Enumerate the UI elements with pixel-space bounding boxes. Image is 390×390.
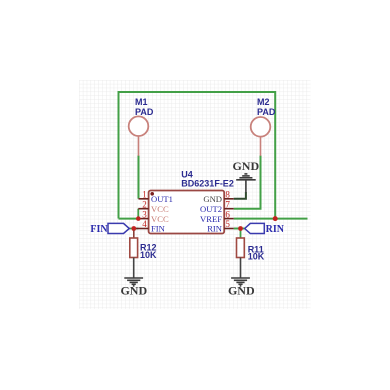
pin 5 stub	[224, 228, 234, 230]
svg-text:OUT1: OUT1	[151, 194, 173, 204]
svg-text:PAD: PAD	[257, 107, 276, 117]
pin 1 stub	[139, 198, 149, 200]
svg-text:VREF: VREF	[200, 214, 222, 224]
svg-text:RIN: RIN	[207, 224, 223, 234]
junction RIN	[238, 226, 243, 231]
pin 8 stub	[224, 198, 234, 200]
svg-text:FIN: FIN	[151, 224, 166, 234]
junction VREF	[273, 216, 278, 221]
ground symbol near pin8	[236, 174, 256, 193]
resistor R12 bottom lead	[133, 258, 135, 278]
svg-text:5: 5	[225, 219, 230, 229]
resistor R11	[237, 238, 245, 258]
pin 2 stub	[138, 208, 148, 210]
wire: top net VCC/VREF loop	[119, 92, 276, 219]
junction pin3	[136, 216, 141, 221]
svg-text:8: 8	[225, 190, 230, 200]
connector RIN	[245, 223, 265, 233]
svg-text:M1: M1	[135, 97, 148, 107]
wire: left box bottom to pin3	[119, 218, 139, 220]
resistor R12 top lead	[133, 231, 135, 239]
wire: VREF run pin6 to right	[234, 218, 308, 220]
svg-text:FIN: FIN	[90, 224, 108, 235]
svg-text:7: 7	[225, 199, 230, 209]
svg-text:OUT2: OUT2	[200, 204, 222, 214]
resistor R11 bottom lead	[240, 258, 242, 278]
svg-text:VCC: VCC	[151, 214, 169, 224]
ground symbol below R12	[124, 278, 143, 286]
svg-text:10K: 10K	[248, 252, 265, 262]
pad M2 lead	[260, 137, 262, 156]
svg-text:PAD: PAD	[135, 107, 154, 117]
wire: R11 top stub	[240, 229, 242, 239]
grid background	[79, 80, 311, 309]
svg-text:3: 3	[142, 209, 147, 219]
wire: pin2 jog to pin3 junction	[137, 209, 139, 219]
pad M1	[129, 116, 149, 136]
wire: pin8 to GND (dark)	[234, 192, 246, 199]
svg-text:GND: GND	[232, 159, 259, 173]
pin 3 stub	[138, 218, 148, 220]
connector FIN	[108, 223, 129, 233]
svg-text:4: 4	[142, 219, 147, 229]
ground symbol below R11	[231, 278, 250, 286]
svg-text:10K: 10K	[140, 250, 157, 260]
svg-text:VCC: VCC	[151, 204, 169, 214]
resistor R12	[130, 238, 138, 258]
junction FIN	[131, 226, 136, 231]
wire: M2 pad drop to pin7	[234, 156, 261, 209]
pin 4 stub	[134, 228, 149, 230]
svg-text:GND: GND	[203, 194, 222, 204]
op IC U4 body	[149, 191, 225, 234]
wire: FIN connector to pin4	[129, 228, 138, 230]
svg-text:1: 1	[142, 190, 147, 200]
svg-text:BD6231F-E2: BD6231F-E2	[181, 178, 234, 188]
svg-text:RIN: RIN	[266, 224, 285, 235]
pin 7 stub	[224, 208, 234, 210]
svg-text:6: 6	[225, 209, 230, 219]
wire: pin5 to RIN connector	[234, 228, 245, 230]
svg-text:GND: GND	[228, 284, 255, 298]
svg-text:2: 2	[142, 199, 147, 209]
pin 6 stub	[224, 218, 234, 220]
svg-text:M2: M2	[257, 97, 270, 107]
wire: M1 pad drop to pin1	[138, 156, 140, 199]
pad M2	[251, 117, 271, 137]
svg-text:GND: GND	[120, 284, 147, 298]
pad M1 lead	[138, 136, 140, 156]
pin1 marker dot	[150, 192, 154, 196]
